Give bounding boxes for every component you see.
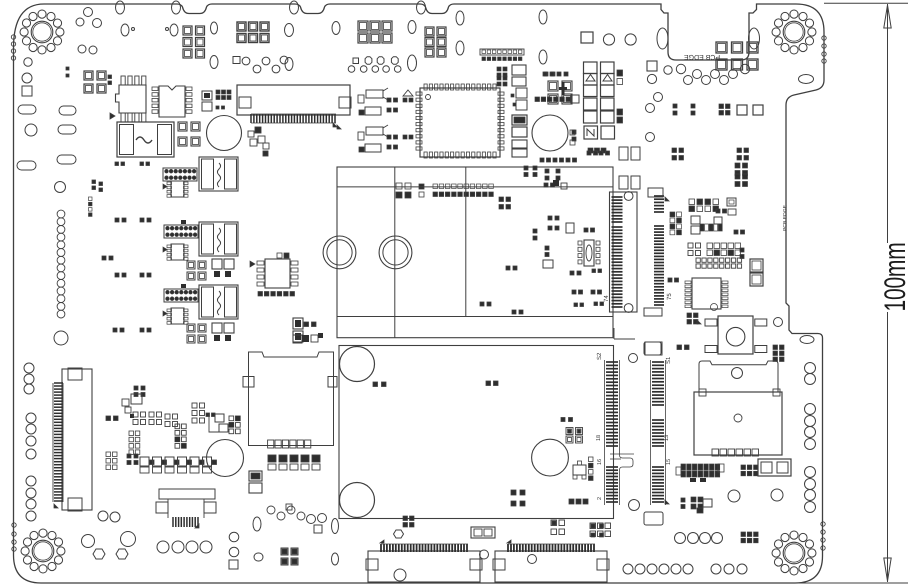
svg-text:2: 2 xyxy=(597,497,603,500)
svg-text:74: 74 xyxy=(603,295,610,302)
svg-text:13: 13 xyxy=(664,435,670,441)
svg-text:18: 18 xyxy=(596,435,602,441)
svg-text:16: 16 xyxy=(597,459,603,465)
svg-text:PCB EDGE: PCB EDGE xyxy=(684,53,721,60)
svg-text:100mm: 100mm xyxy=(879,242,908,311)
svg-text:15: 15 xyxy=(666,459,672,465)
svg-text:S2: S2 xyxy=(596,352,603,360)
svg-text:S1: S1 xyxy=(665,356,672,364)
svg-text:PCB EDGE: PCB EDGE xyxy=(783,204,789,231)
svg-text:75: 75 xyxy=(666,293,673,300)
